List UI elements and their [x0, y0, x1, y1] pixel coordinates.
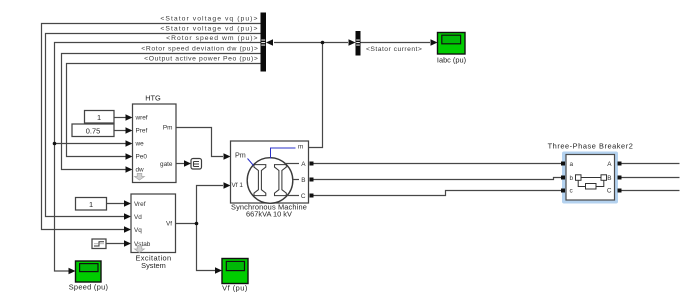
- svg-text:<Stator voltage vq (pu)>: <Stator voltage vq (pu)>: [160, 16, 258, 23]
- svg-text:Pref: Pref: [136, 128, 148, 135]
- svg-text:C: C: [301, 193, 306, 200]
- svg-text:1: 1: [97, 113, 101, 122]
- svg-text:<Stator voltage vd (pu)>: <Stator voltage vd (pu)>: [160, 26, 258, 33]
- svg-text:<Output active power Peo (pu: <Output active power Peo (pu)>: [144, 56, 258, 63]
- svg-text:B: B: [607, 175, 611, 182]
- svg-text:dw: dw: [136, 167, 145, 174]
- svg-text:Three-Phase Breaker2: Three-Phase Breaker2: [548, 142, 634, 151]
- svg-text:667kVA 10 kV: 667kVA 10 kV: [246, 210, 292, 219]
- svg-text:Vstab: Vstab: [134, 241, 151, 248]
- svg-text:<Stator current>: <Stator current>: [366, 46, 422, 53]
- svg-text:Iabc (pu): Iabc (pu): [437, 56, 466, 65]
- svg-text:Vf (pu): Vf (pu): [222, 283, 248, 292]
- svg-text:a: a: [570, 161, 574, 168]
- svg-text:Vf: Vf: [166, 221, 172, 228]
- svg-text:<Rotor speed deviation dw (pu: <Rotor speed deviation dw (pu)>: [141, 46, 258, 53]
- svg-text:A: A: [607, 161, 612, 168]
- svg-text:C: C: [607, 188, 612, 195]
- svg-text:Vq: Vq: [134, 227, 142, 234]
- svg-text:Vf 1: Vf 1: [232, 182, 244, 189]
- svg-text:System: System: [141, 261, 166, 270]
- svg-text:b: b: [570, 175, 574, 182]
- svg-text:wref: wref: [135, 115, 148, 122]
- svg-text:0.75: 0.75: [86, 127, 100, 136]
- svg-text:gate: gate: [160, 161, 173, 168]
- svg-text:m: m: [298, 144, 303, 151]
- svg-text:Vref: Vref: [134, 201, 146, 208]
- svg-text:A: A: [301, 161, 306, 168]
- svg-text:Speed (pu): Speed (pu): [69, 282, 109, 291]
- svg-text:<Rotor speed wm (pu)>: <Rotor speed wm (pu)>: [166, 35, 258, 42]
- svg-text:HTG: HTG: [145, 94, 161, 103]
- svg-text:B: B: [301, 177, 305, 184]
- svg-text:Vd: Vd: [134, 214, 142, 221]
- svg-text:1: 1: [89, 200, 93, 209]
- svg-text:we: we: [135, 141, 145, 148]
- svg-text:Pm: Pm: [163, 125, 173, 132]
- svg-text:Pe0: Pe0: [136, 154, 148, 161]
- svg-text:Pm: Pm: [235, 151, 246, 160]
